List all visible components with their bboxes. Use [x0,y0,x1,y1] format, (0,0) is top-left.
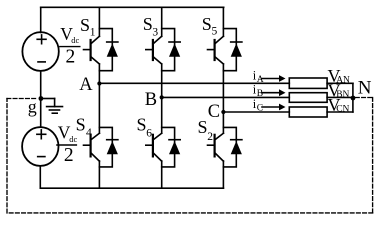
current arrow iA [262,75,286,82]
svg-text:C: C [208,102,220,122]
svg-text:CN: CN [336,105,349,115]
node C junction dot [221,110,225,114]
wire: neutral bus vertical [352,83,354,112]
load box phase B [289,93,327,103]
svg-text:A: A [257,75,264,85]
load box phase A [289,78,327,88]
switch S6 (IGBT) [146,97,162,188]
wire: phase A output [99,82,289,84]
label S4 [76,114,92,139]
label iA [253,68,264,85]
svg-text:5: 5 [212,26,218,38]
svg-text:S: S [76,114,86,134]
svg-text:6: 6 [146,128,152,140]
ground symbol [41,99,63,114]
svg-text:C: C [257,103,263,113]
diode D2 branch (antiparallel with S2) [223,127,242,166]
wire: load B to neutral bus [327,96,353,98]
switch S5 (IGBT) [208,7,224,112]
current arrow iC [262,104,286,111]
wire: load A to neutral bus [327,82,353,84]
node N junction dot [351,96,356,101]
fraction bar (lower Vdc/2) [57,144,77,146]
label VCN [328,95,350,115]
label iB [253,83,263,100]
current arrow iB [262,89,286,96]
fraction bar (upper Vdc/2) [60,46,80,48]
dashed wire: boundary to node g [7,98,38,100]
voltage source V2 (lower Vdc/2) [22,127,58,166]
svg-text:dc: dc [71,35,79,45]
svg-text:A: A [79,75,93,95]
label Vdc/2 (upper) [60,24,79,67]
voltage source V1 (upper Vdc/2) [22,32,58,71]
wire: top DC bus [41,6,224,8]
svg-text:S: S [143,14,153,34]
label S6 [137,114,153,139]
switch S3 (IGBT) [146,7,162,97]
switch S1 (IGBT) [84,7,100,83]
svg-text:B: B [145,90,157,110]
svg-text:g: g [28,96,37,116]
svg-text:3: 3 [152,26,158,38]
diode D4 branch (antiparallel with S4) [99,127,118,166]
label S5 [202,14,218,38]
svg-text:1: 1 [90,26,96,38]
svg-text:2: 2 [64,145,74,166]
svg-text:2: 2 [207,131,213,143]
wire: left rail bottom segment [39,166,41,188]
svg-text:2: 2 [66,46,76,67]
label Vdc/2 (lower) [58,123,78,166]
label S2 [198,117,214,143]
diode D6 branch (antiparallel with S6) [162,127,181,166]
svg-text:S: S [80,15,90,35]
wire: phase B output [162,96,290,98]
switch S2 (IGBT) [208,112,224,188]
label S1 [80,15,96,38]
dashed wire: right boundary vertical [372,98,374,213]
svg-text:S: S [202,14,212,34]
node g junction dot [39,96,44,101]
wire: left rail top segment [40,7,42,32]
label S3 [143,14,159,38]
wire: phase C output [223,111,289,113]
svg-text:S: S [198,117,208,137]
svg-text:dc: dc [69,134,77,144]
dashed wire: bottom boundary [7,212,373,214]
node B junction dot [160,95,164,99]
diode D1 branch (antiparallel with S1) [99,29,118,71]
load box phase C [289,107,327,117]
dashed wire: N to boundary [356,97,373,99]
wire: left rail between V1 and node g [40,71,42,99]
wire: load C to neutral bus [327,111,353,113]
label iC [253,97,263,114]
label VBN [328,80,350,100]
svg-text:N: N [358,78,372,99]
wire: bottom DC bus [40,187,223,189]
svg-text:4: 4 [86,127,92,139]
svg-text:B: B [257,89,263,99]
wire: left rail between node g and V2 [40,99,42,128]
node A junction dot [97,81,101,85]
switch S4 (IGBT) [84,84,100,189]
svg-text:S: S [137,114,147,134]
diode D5 branch (antiparallel with S5) [223,29,242,71]
dashed wire: left boundary vertical [6,99,8,213]
diode D3 branch (antiparallel with S3) [162,29,181,71]
label VAN [328,66,351,86]
